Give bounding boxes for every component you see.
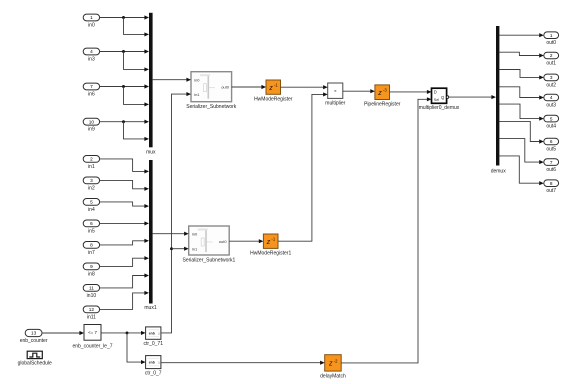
svg-text:12: 12 (89, 307, 95, 312)
svg-text:11: 11 (89, 286, 94, 291)
svg-text:-3: -3 (383, 88, 387, 93)
svg-text:in6: in6 (88, 92, 95, 98)
svg-text:4: 4 (550, 95, 553, 100)
svg-text:HwModeRegister: HwModeRegister (254, 97, 293, 103)
svg-text:<= 7: <= 7 (88, 330, 97, 335)
svg-text:5: 5 (90, 200, 93, 205)
svg-text:out1: out1 (546, 60, 556, 66)
svg-text:out6: out6 (546, 167, 556, 173)
svg-text:in1: in1 (194, 92, 200, 97)
svg-text:out0: out0 (546, 40, 556, 46)
svg-text:out0: out0 (219, 239, 228, 244)
svg-text:in1: in1 (88, 164, 95, 170)
svg-text:ctr_0_7: ctr_0_7 (145, 370, 162, 376)
svg-text:2: 2 (550, 53, 553, 58)
svg-text:Sel: Sel (434, 98, 439, 102)
svg-text:globalSchedule: globalSchedule (18, 361, 52, 367)
svg-text:Serializer_Subnetwork: Serializer_Subnetwork (186, 104, 237, 110)
svg-text:out2: out2 (546, 82, 556, 88)
svg-text:out4: out4 (546, 124, 556, 130)
svg-text:z: z (266, 239, 271, 246)
svg-text:in0: in0 (88, 23, 95, 29)
svg-text:3: 3 (550, 75, 553, 80)
svg-text:z: z (328, 361, 333, 368)
svg-text:6: 6 (550, 139, 553, 144)
svg-text:out5: out5 (546, 146, 556, 152)
svg-text:out0: out0 (221, 85, 230, 90)
svg-text:ctr_0_71: ctr_0_71 (144, 341, 164, 347)
svg-text:10: 10 (89, 119, 95, 124)
svg-text:in3: in3 (88, 57, 95, 63)
svg-text:6: 6 (90, 221, 93, 226)
svg-text:8: 8 (90, 243, 93, 248)
svg-text:-2: -2 (334, 358, 338, 363)
svg-text:in10: in10 (87, 293, 97, 299)
svg-text:z: z (268, 85, 273, 92)
svg-text:[]: [] (158, 361, 160, 365)
svg-text:9: 9 (90, 264, 93, 269)
svg-text:13: 13 (31, 331, 37, 336)
svg-text:1: 1 (550, 33, 553, 38)
svg-text:in0: in0 (194, 78, 200, 83)
svg-text:enb_counter_le_7: enb_counter_le_7 (72, 343, 112, 349)
svg-text:in8: in8 (88, 271, 95, 277)
svg-text:2: 2 (90, 157, 93, 162)
svg-text:×: × (334, 88, 337, 93)
svg-text:out7: out7 (546, 188, 556, 194)
svg-text:out3: out3 (546, 102, 556, 108)
svg-text:in4: in4 (88, 207, 95, 213)
svg-text:multiplier: multiplier (325, 101, 345, 107)
svg-text:7: 7 (90, 84, 93, 89)
svg-text:PipelineRegister: PipelineRegister (364, 102, 401, 108)
svg-text:enb: enb (149, 361, 155, 365)
svg-text:5: 5 (550, 116, 553, 121)
svg-text:mux1: mux1 (144, 305, 156, 311)
svg-text:in7: in7 (88, 250, 95, 256)
svg-text:demux: demux (491, 168, 507, 174)
svg-text:delayMatch: delayMatch (320, 373, 346, 379)
svg-text:1: 1 (90, 15, 93, 20)
svg-text:enb_counter: enb_counter (20, 338, 48, 344)
svg-text:[]: [] (158, 332, 160, 336)
svg-text:-1: -1 (274, 83, 278, 88)
svg-text:7: 7 (550, 160, 553, 165)
svg-text:HwModeRegister1: HwModeRegister1 (250, 251, 291, 257)
svg-text:in1: in1 (192, 246, 198, 251)
svg-text:in11: in11 (87, 314, 96, 320)
svg-text:mux: mux (146, 149, 156, 155)
svg-text:in9: in9 (88, 127, 95, 133)
svg-text:z: z (377, 90, 382, 97)
svg-text:Serializer_Subnetwork1: Serializer_Subnetwork1 (183, 257, 236, 263)
svg-text:-1: -1 (271, 237, 275, 242)
svg-text:4: 4 (90, 49, 93, 54)
svg-text:in2: in2 (88, 185, 95, 191)
svg-text:3: 3 (90, 178, 93, 183)
svg-text:8: 8 (550, 181, 553, 186)
svg-text:enb: enb (149, 332, 155, 336)
svg-text:multiplier0_demux: multiplier0_demux (419, 105, 460, 111)
svg-text:in5: in5 (88, 228, 95, 234)
svg-text:in0: in0 (192, 231, 198, 236)
svg-text:D: D (434, 90, 437, 95)
